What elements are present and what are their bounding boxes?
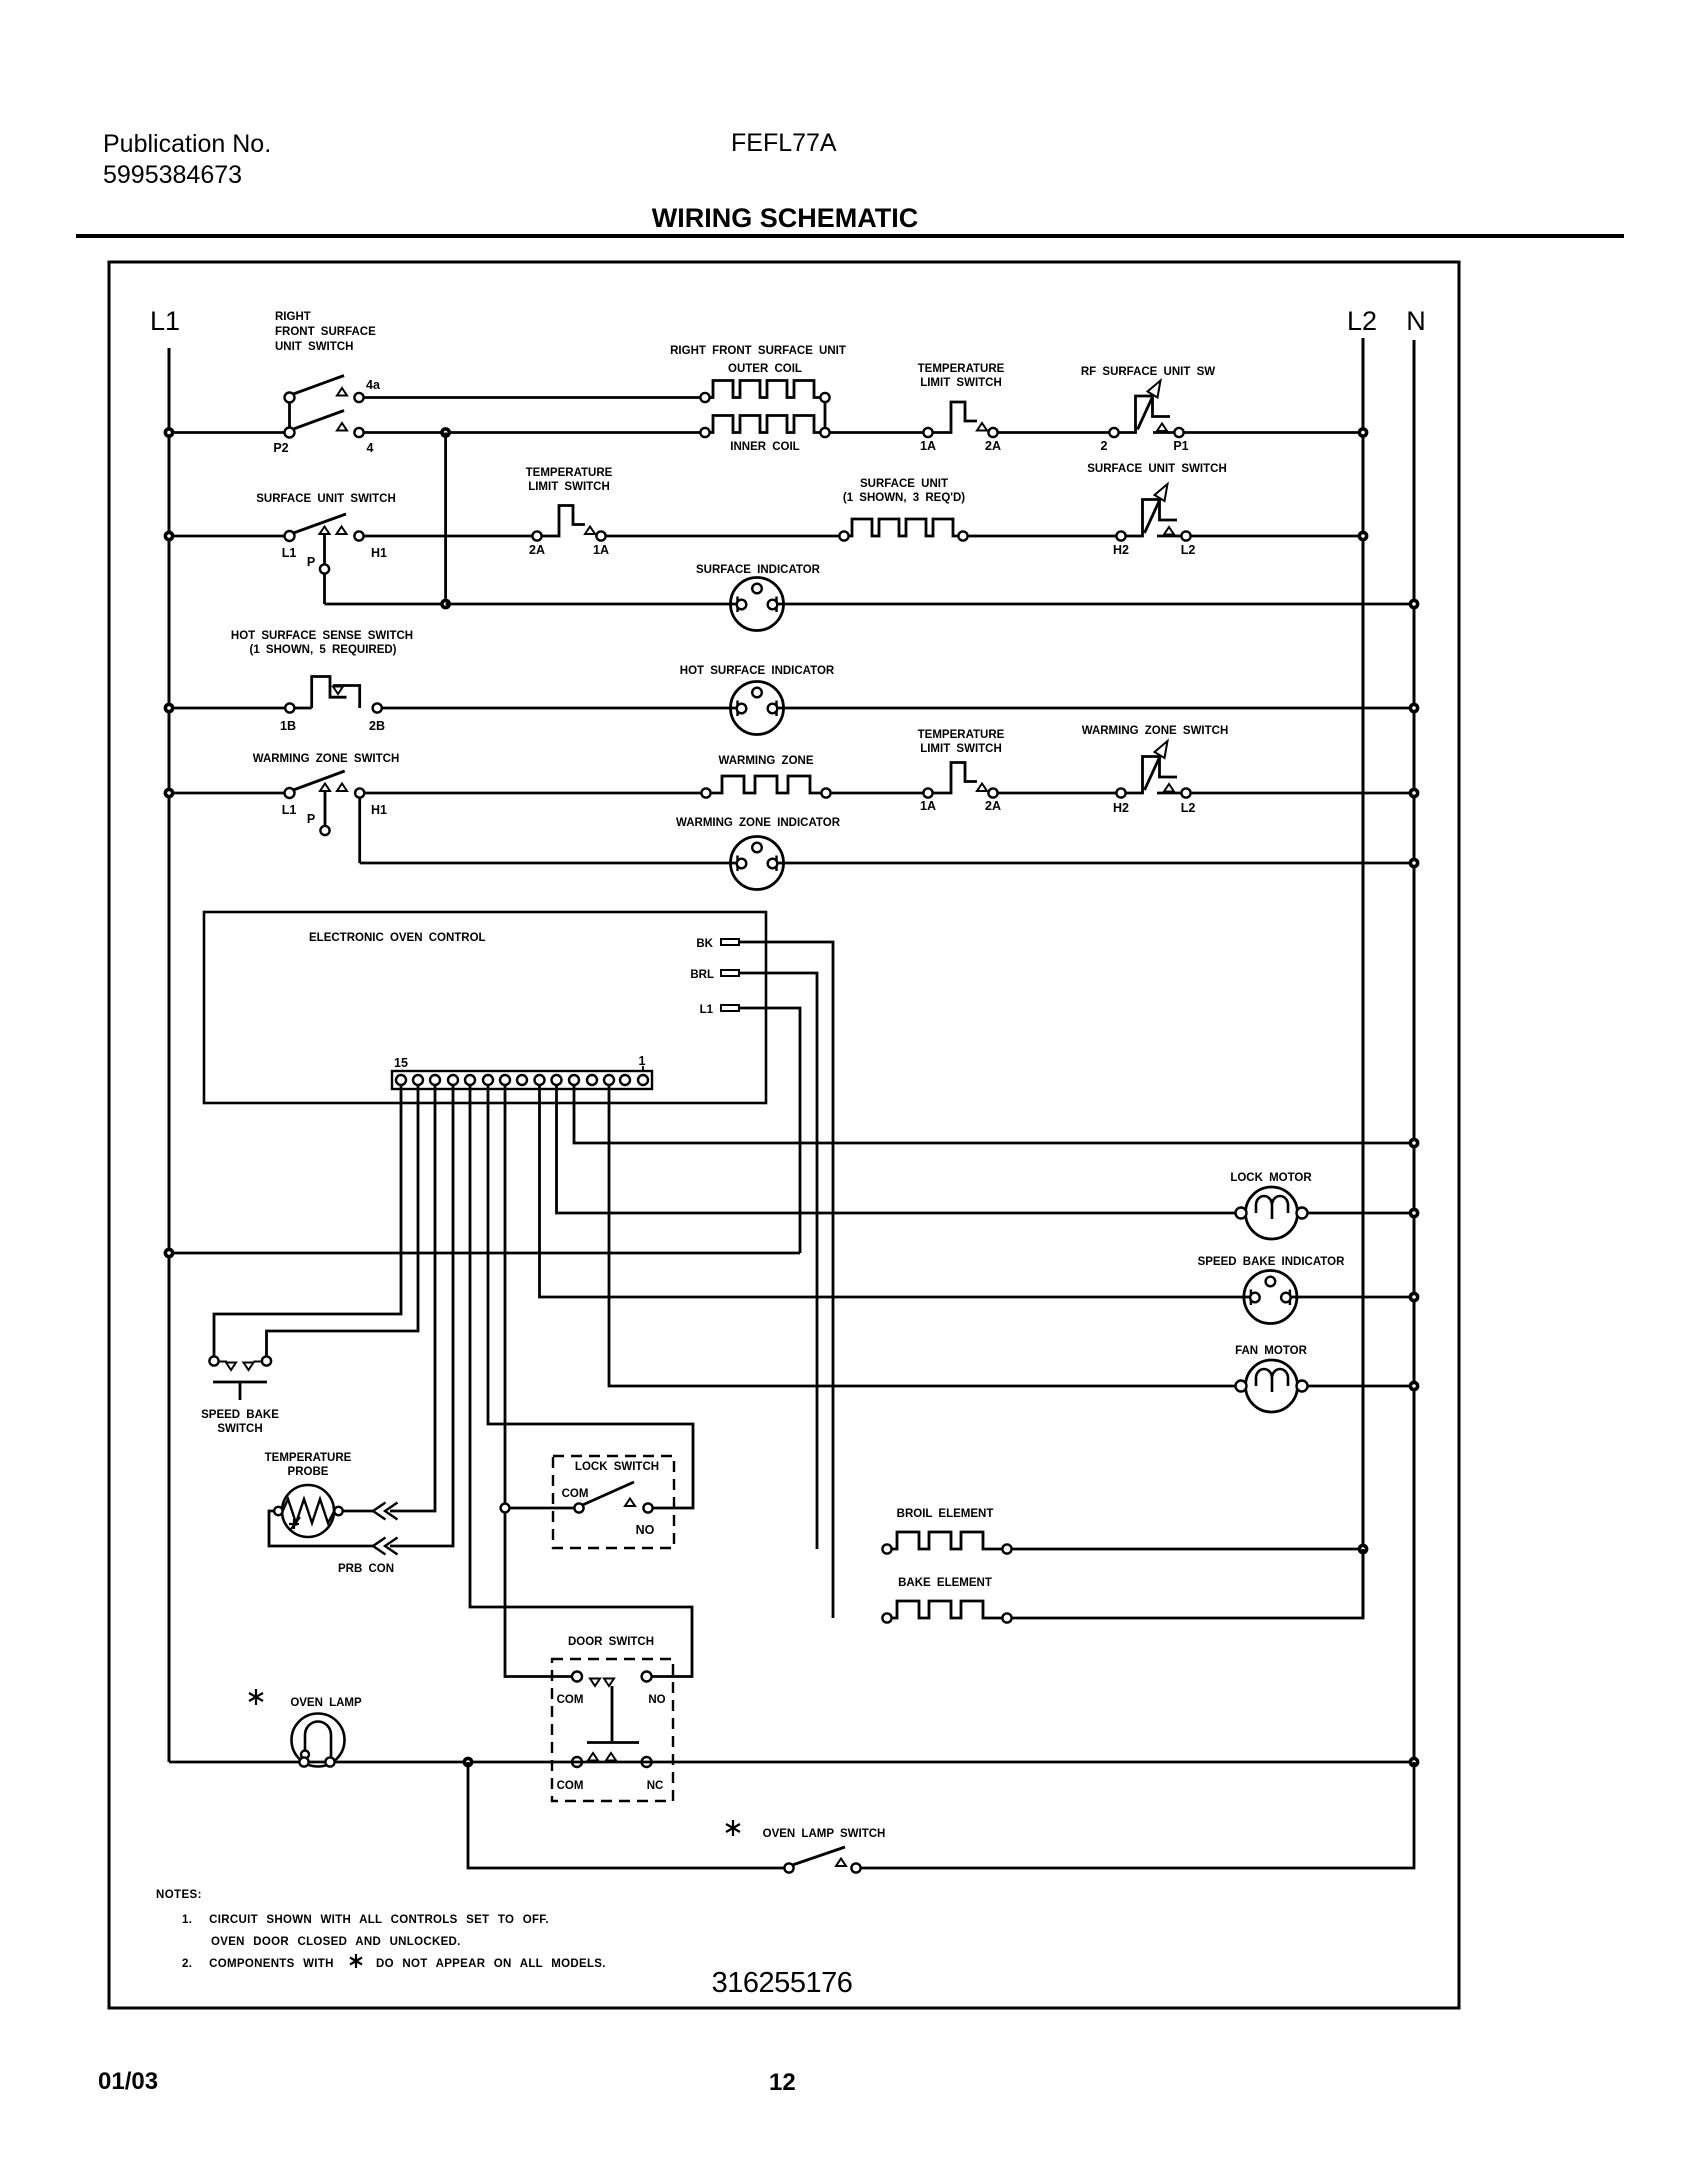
wire pin11 to door switch NO (470, 1085, 692, 1677)
svg-text:BK: BK (696, 938, 713, 950)
switch SPEED BAKE SWITCH (201, 1356, 279, 1435)
svg-text:L2: L2 (1347, 306, 1377, 336)
lamp OVEN LAMP (249, 1689, 362, 1767)
junction N row6 (1410, 859, 1417, 866)
svg-text:(1 SHOWN, 5 REQUIRED): (1 SHOWN, 5 REQUIRED) (249, 644, 396, 656)
lamp HOT SURFACE INDICATOR (680, 665, 835, 735)
svg-text:OUTER COIL: OUTER COIL (728, 363, 802, 375)
resistor TEMPERATURE PROBE (265, 1452, 352, 1537)
svg-text:TEMPERATURE: TEMPERATURE (526, 467, 613, 479)
svg-text:COM: COM (562, 1488, 589, 1500)
svg-text:2: 2 (1101, 439, 1108, 453)
junction N row5 (1410, 789, 1417, 796)
wire pin7 to speed bake indicator (540, 1085, 1251, 1297)
svg-text:FEFL77A: FEFL77A (731, 129, 837, 157)
svg-text:DOOR SWITCH: DOOR SWITCH (568, 1636, 654, 1648)
wire H1 to 2A (364, 535, 533, 538)
svg-text:H2: H2 (1113, 543, 1129, 557)
motor LOCK MOTOR (1230, 1172, 1312, 1239)
wire L2 terminal to L2 rail (1191, 535, 1363, 538)
wire pin5 to N (574, 1085, 1414, 1143)
svg-text:OVEN DOOR CLOSED AND UNLOCKED.: OVEN DOOR CLOSED AND UNLOCKED. (211, 1936, 461, 1948)
wire 1A to surface unit coil (606, 535, 840, 538)
svg-text:P: P (307, 812, 315, 826)
wire warming coil to 1A (831, 792, 924, 795)
svg-text:H1: H1 (371, 803, 387, 817)
switch temperature limit switch row2 (2A/1A) (526, 467, 613, 557)
wire surface indicator row left (325, 603, 442, 606)
wire pin12 to temperature probe bottom (390, 1085, 453, 1546)
svg-text:2B: 2B (369, 719, 385, 733)
svg-text:L1: L1 (700, 1004, 714, 1016)
svg-text:Publication No.: Publication No. (103, 130, 271, 158)
wire warming switch to N (1191, 792, 1414, 795)
switch SURFACE UNIT SWITCH right (terminals H2/L2) (1087, 463, 1227, 557)
wire row3 to surface indicator (446, 603, 738, 606)
wire pin13 to temperature probe top (390, 1085, 435, 1511)
svg-text:FRONT SURFACE: FRONT SURFACE (275, 326, 376, 338)
wire L2 rail (1362, 338, 1365, 1618)
svg-text:NO: NO (636, 1523, 655, 1537)
wire H1 drop to warming indicator row (358, 798, 361, 863)
svg-text:L1: L1 (282, 546, 297, 560)
svg-text:PROBE: PROBE (288, 1466, 329, 1478)
heater RIGHT FRONT SURFACE UNIT INNER COIL (700, 416, 829, 454)
wire L1 to P2 (169, 431, 284, 434)
svg-text:1A: 1A (920, 439, 936, 453)
svg-text:4: 4 (367, 441, 374, 455)
svg-text:LIMIT SWITCH: LIMIT SWITCH (528, 481, 610, 493)
junction N bottom run (1410, 1758, 1417, 1765)
svg-text:SPEED BAKE INDICATOR: SPEED BAKE INDICATOR (1198, 1256, 1345, 1268)
svg-text:HOT SURFACE SENSE SWITCH: HOT SURFACE SENSE SWITCH (231, 630, 413, 642)
switch temperature limit switch row5 (1A/2A) (918, 729, 1005, 813)
op-box ELECTRONIC OVEN CONTROL (204, 912, 766, 1103)
svg-text:RIGHT: RIGHT (275, 311, 311, 323)
motor FAN MOTOR (1235, 1345, 1307, 1412)
switch WARMING ZONE SWITCH right (terminals H2/L2) (1082, 725, 1229, 815)
wire inner coil to 1A (830, 431, 924, 434)
notes block (156, 1889, 606, 1970)
svg-text:PRB CON: PRB CON (338, 1563, 394, 1575)
wire pin15 to speed bake switch left (214, 1085, 401, 1356)
svg-text:WARMING ZONE INDICATOR: WARMING ZONE INDICATOR (676, 817, 841, 829)
heater WARMING ZONE coil (701, 755, 830, 798)
svg-text:H2: H2 (1113, 801, 1129, 815)
publication number block (103, 130, 271, 189)
svg-text:SURFACE INDICATOR: SURFACE INDICATOR (696, 564, 821, 576)
junction L1 row1 (165, 429, 172, 436)
svg-text:BRL: BRL (690, 969, 714, 981)
wire pin14 to speed bake switch right (267, 1085, 419, 1356)
switch OVEN LAMP SWITCH (726, 1820, 885, 1873)
svg-text:(1 SHOWN, 3 REQ'D): (1 SHOWN, 3 REQ'D) (843, 492, 965, 504)
wire N rail (1413, 340, 1416, 1762)
svg-text:2A: 2A (529, 543, 545, 557)
svg-text:LIMIT SWITCH: LIMIT SWITCH (920, 743, 1002, 755)
junction N row3 (1410, 600, 1417, 607)
wire oven lamp switch to N drop (861, 1762, 1414, 1868)
svg-text:FAN MOTOR: FAN MOTOR (1235, 1345, 1307, 1357)
svg-text:SPEED BAKE: SPEED BAKE (201, 1409, 279, 1421)
heater BROIL ELEMENT (882, 1508, 1011, 1554)
svg-text:15: 15 (394, 1056, 408, 1070)
svg-text:5995384673: 5995384673 (103, 161, 242, 189)
svg-text:P1: P1 (1173, 439, 1188, 453)
wire outer/inner coil right terminals link (824, 402, 827, 428)
svg-text:BAKE ELEMENT: BAKE ELEMENT (898, 1577, 992, 1589)
svg-text:2A: 2A (985, 799, 1001, 813)
svg-text:2A: 2A (985, 439, 1001, 453)
terminal BRL of oven control (690, 969, 739, 981)
wire L1 rail to oven control L1 (169, 1252, 800, 1255)
junction L1 row4 (165, 704, 172, 711)
wire 2A to RF switch (998, 431, 1110, 434)
wire L1 to 1B (169, 707, 285, 710)
svg-text:N: N (1406, 306, 1426, 336)
svg-text:SURFACE UNIT SWITCH: SURFACE UNIT SWITCH (1087, 463, 1227, 475)
switch WARMING ZONE SWITCH left (terminals L1/P/H1) (253, 753, 400, 835)
wire bottom run L1 to N through oven lamp and door switch (169, 1761, 1414, 1764)
svg-text:NO: NO (648, 1694, 665, 1706)
wire L1 rail (168, 348, 171, 1762)
switch SURFACE UNIT SWITCH left (terminals L1/P/H1) (256, 493, 396, 574)
svg-text:OVEN LAMP: OVEN LAMP (290, 1697, 362, 1709)
wire BRL to broil element drop (739, 973, 817, 1549)
wire probe right to PRB CON chevron (343, 1510, 373, 1513)
connector strip pins 15..1 of oven control (392, 1054, 652, 1089)
junction L1 feed (165, 1249, 172, 1256)
junction L2 broil/bake (1359, 1545, 1366, 1552)
switch S1 RIGHT FRONT SURFACE UNIT SWITCH (double pole, terminals P2/4/4a) (273, 311, 381, 455)
svg-text:DO NOT APPEAR ON ALL MODELS.: DO NOT APPEAR ON ALL MODELS. (376, 1958, 606, 1970)
wire 4a to outer coil (364, 396, 701, 399)
svg-text:COM: COM (557, 1694, 584, 1706)
svg-text:P2: P2 (273, 441, 288, 455)
svg-text:LOCK SWITCH: LOCK SWITCH (575, 1461, 659, 1473)
svg-text:H1: H1 (371, 546, 387, 560)
schematic border frame (109, 262, 1459, 2008)
switch RF SURFACE UNIT SW (terminals 2/P1) (1081, 366, 1215, 453)
svg-text:HOT SURFACE INDICATOR: HOT SURFACE INDICATOR (680, 665, 835, 677)
svg-text:L1: L1 (150, 306, 180, 336)
svg-text:TEMPERATURE: TEMPERATURE (918, 363, 1005, 375)
svg-text:WARMING ZONE: WARMING ZONE (719, 755, 814, 767)
wire 2B to hot surface indicator (382, 707, 738, 710)
wire surface indicator to N (777, 603, 1415, 606)
junction L2 row2 (1359, 532, 1366, 539)
svg-text:SURFACE UNIT SWITCH: SURFACE UNIT SWITCH (256, 493, 396, 505)
wire warming indicator row left (360, 862, 738, 865)
svg-text:SWITCH: SWITCH (217, 1423, 262, 1435)
wire L1 to surface unit switch (169, 535, 284, 538)
svg-text:COM: COM (557, 1780, 584, 1792)
wire pin3 to fan motor (609, 1085, 1236, 1386)
svg-text:WARMING ZONE SWITCH: WARMING ZONE SWITCH (253, 753, 400, 765)
wire probe left loop to bottom chevron (269, 1511, 373, 1546)
switch DOOR SWITCH (COM/NO upper, COM/NC lower) (552, 1636, 673, 1801)
heater RIGHT FRONT SURFACE UNIT OUTER COIL (670, 345, 846, 402)
wire 4 to inner coil (364, 431, 701, 434)
wire lock motor to N (1308, 1212, 1415, 1215)
wire pin6 to lock motor (557, 1085, 1236, 1213)
wire broil element to L2 (1012, 1548, 1363, 1551)
wire COM tap to lock switch (509, 1507, 574, 1510)
wire L1 to warming zone switch (169, 792, 284, 795)
svg-text:RF SURFACE UNIT SW: RF SURFACE UNIT SW (1081, 366, 1215, 378)
connector PRB CON bottom chevron (373, 1538, 398, 1555)
wire pin9 to door switch COM (505, 1085, 572, 1677)
header rule (76, 234, 1624, 238)
svg-text:ELECTRONIC OVEN CONTROL: ELECTRONIC OVEN CONTROL (309, 932, 486, 944)
svg-text:NOTES:: NOTES: (156, 1889, 202, 1901)
heater BAKE ELEMENT (882, 1577, 1011, 1623)
svg-text:SURFACE UNIT: SURFACE UNIT (860, 478, 948, 490)
svg-text:TEMPERATURE: TEMPERATURE (265, 1452, 352, 1464)
svg-text:UNIT SWITCH: UNIT SWITCH (275, 341, 353, 353)
junction N row4 (1410, 704, 1417, 711)
wire L1 terminal drop to L1 feed (739, 1008, 800, 1253)
terminal BK of oven control (696, 938, 739, 950)
svg-text:INNER COIL: INNER COIL (730, 441, 799, 453)
wire BK to bake element drop (739, 942, 833, 1618)
wire surface unit coil to H2 (968, 535, 1117, 538)
svg-text:L1: L1 (282, 803, 297, 817)
wire pin10 to lock switch NO (488, 1085, 693, 1508)
junction N speed bake indicator (1410, 1293, 1417, 1300)
wire fan motor to N (1308, 1385, 1415, 1388)
junction N lock motor (1410, 1209, 1417, 1216)
connector PRB CON top chevron (373, 1503, 398, 1520)
heater SURFACE UNIT coil (839, 478, 967, 541)
wire H1 to warming zone coil (364, 792, 701, 795)
svg-text:01/03: 01/03 (98, 2068, 158, 2095)
svg-text:LOCK MOTOR: LOCK MOTOR (1230, 1172, 1312, 1184)
switch LOCK SWITCH (COM/NO) (553, 1456, 674, 1548)
svg-text:12: 12 (769, 2069, 796, 2096)
svg-text:RIGHT FRONT SURFACE UNIT: RIGHT FRONT SURFACE UNIT (670, 345, 846, 357)
svg-text:L2: L2 (1181, 801, 1196, 815)
wire vertical link row1 to surface indicator row (444, 433, 447, 605)
lamp SPEED BAKE INDICATOR (1198, 1256, 1345, 1324)
svg-text:P: P (307, 555, 315, 569)
junction L1 row2 (165, 532, 172, 539)
svg-text:316255176: 316255176 (712, 1967, 853, 1999)
svg-text:4a: 4a (366, 378, 381, 392)
lamp WARMING ZONE INDICATOR (676, 817, 841, 890)
wire warming indicator to N (777, 862, 1415, 865)
svg-text:2. COMPONENTS WITH: 2. COMPONENTS WITH (182, 1958, 334, 1970)
junction N pin5 (1410, 1139, 1417, 1146)
junction lock switch COM tap on pin9 wire (501, 1504, 510, 1513)
junction oven lamp switch drop (464, 1758, 471, 1765)
wire drop to oven lamp switch (468, 1762, 784, 1868)
junction N fan motor (1410, 1382, 1417, 1389)
wire bake element up to L2 junction (1012, 1549, 1363, 1618)
svg-text:1A: 1A (920, 799, 936, 813)
svg-text:LIMIT SWITCH: LIMIT SWITCH (920, 377, 1002, 389)
svg-text:WARMING ZONE SWITCH: WARMING ZONE SWITCH (1082, 725, 1229, 737)
wire speed bake indicator to N (1290, 1296, 1414, 1299)
svg-text:NC: NC (647, 1780, 664, 1792)
svg-text:1. CIRCUIT SHOWN WITH ALL CON: 1. CIRCUIT SHOWN WITH ALL CONTROLS SET T… (182, 1914, 549, 1926)
svg-text:WIRING SCHEMATIC: WIRING SCHEMATIC (652, 203, 918, 233)
junction row3 link (442, 600, 449, 607)
svg-text:1B: 1B (280, 719, 296, 733)
svg-text:BROIL ELEMENT: BROIL ELEMENT (897, 1508, 994, 1520)
junction L2 row1 (1359, 429, 1366, 436)
wire hot surface indicator to N (777, 707, 1415, 710)
svg-text:OVEN LAMP SWITCH: OVEN LAMP SWITCH (763, 1828, 886, 1840)
wire P1 to L2 (1184, 431, 1363, 434)
switch temperature limit switch row1 (1A/2A) (918, 363, 1005, 453)
junction node row1/row3 link top (442, 429, 449, 436)
svg-text:1A: 1A (593, 543, 609, 557)
junction L1 row5 (165, 789, 172, 796)
wire 2A to warming zone switch right (998, 792, 1117, 795)
lamp SURFACE INDICATOR (696, 564, 821, 631)
svg-text:TEMPERATURE: TEMPERATURE (918, 729, 1005, 741)
switch HOT SURFACE SENSE SWITCH (terminals 1B/2B) (231, 630, 413, 733)
svg-text:L2: L2 (1181, 543, 1196, 557)
terminal L1 of oven control (700, 1004, 739, 1016)
svg-text:1: 1 (639, 1054, 646, 1068)
wire P drop to indicator row (323, 574, 326, 604)
